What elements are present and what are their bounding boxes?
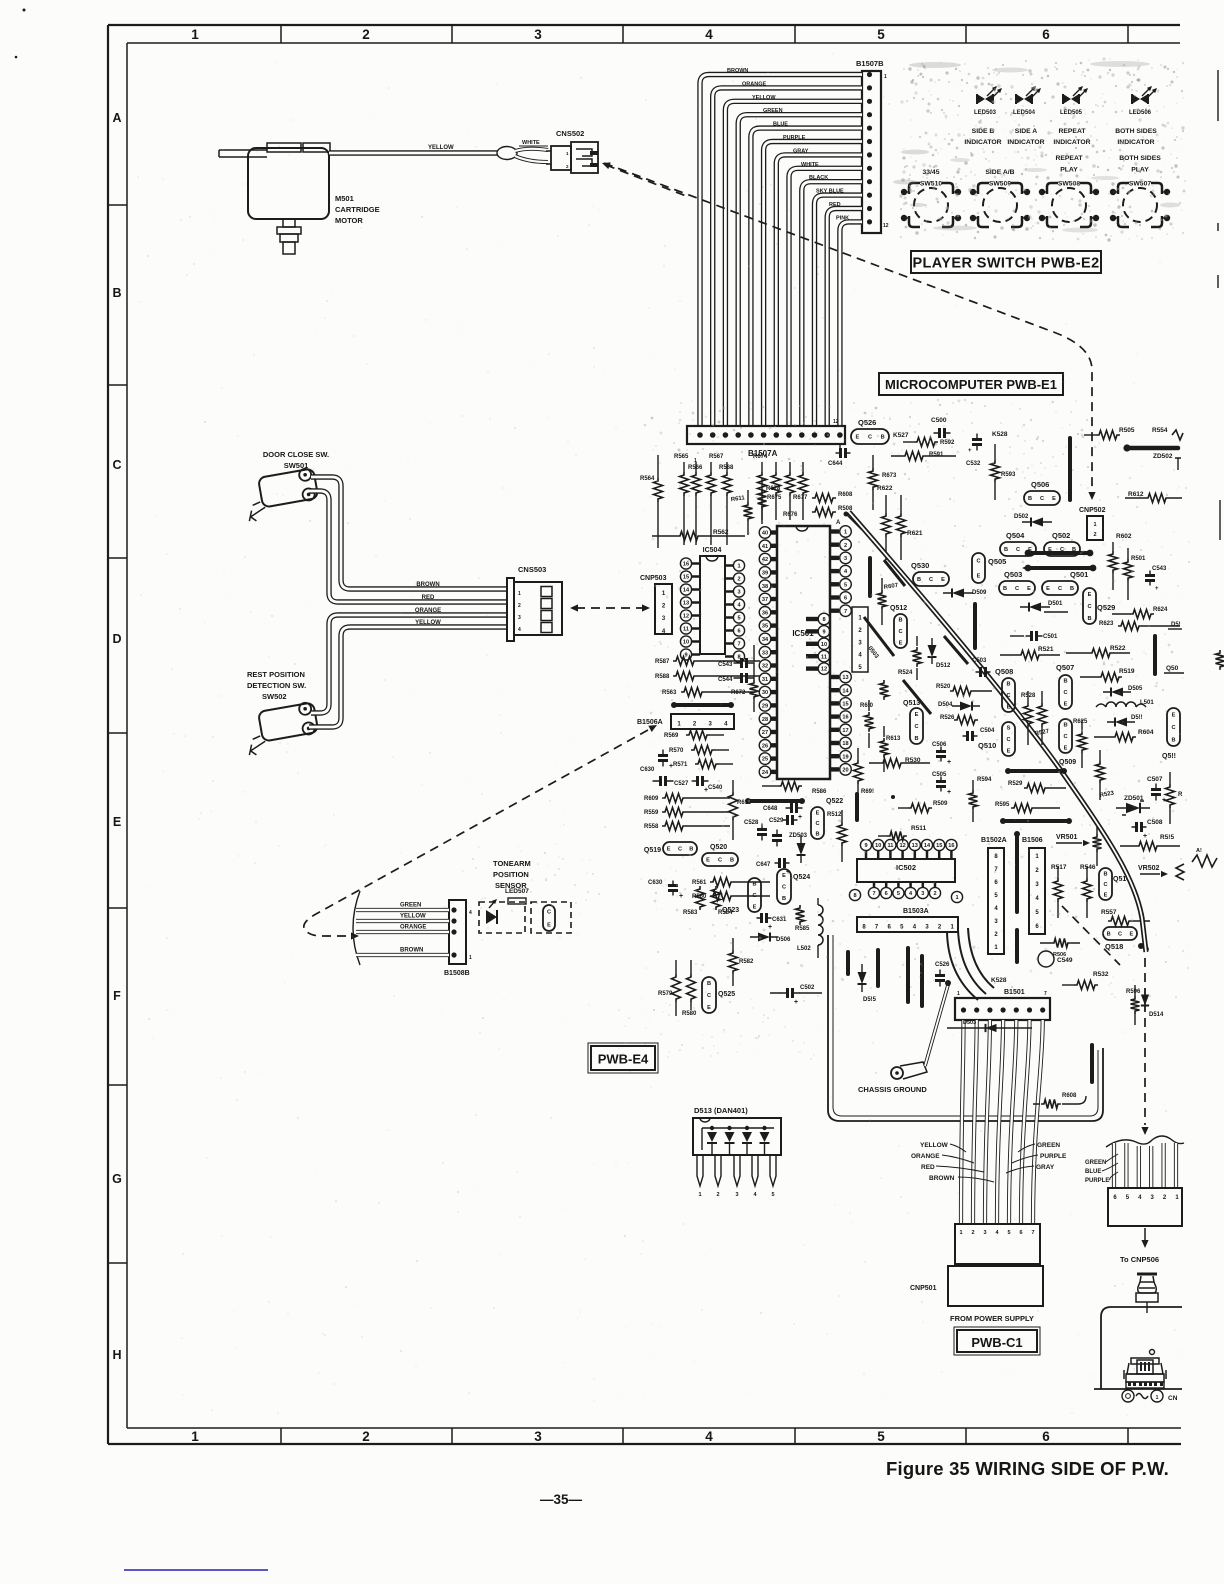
resistor R691	[854, 760, 863, 784]
scan noise sensor area	[519, 890, 520, 891]
svg-text:C: C	[782, 885, 786, 891]
wire BROWN B1507B pin 1 to B1507A	[700, 75, 862, 427]
jumper bar f1	[846, 952, 850, 974]
svg-text:R565: R565	[674, 454, 689, 460]
svg-text:CNS503: CNS503	[518, 565, 546, 574]
svg-text:B1506A: B1506A	[637, 719, 663, 726]
svg-text:POSITION: POSITION	[493, 870, 529, 879]
connector CNS503	[507, 578, 514, 641]
svg-text:38: 38	[762, 584, 768, 590]
svg-text:C630: C630	[640, 767, 655, 773]
svg-text:4: 4	[518, 627, 521, 633]
svg-text:YELLOW: YELLOW	[415, 620, 441, 626]
svg-text:C: C	[752, 893, 756, 899]
wire 3 to CNP506 connector	[1137, 1146, 1141, 1188]
svg-text:C: C	[914, 724, 918, 730]
svg-text:R529: R529	[1008, 781, 1023, 787]
svg-text:10: 10	[875, 843, 881, 849]
diode D514	[1141, 995, 1149, 1006]
resistor R675	[775, 462, 777, 520]
svg-text:Q512: Q512	[890, 605, 907, 612]
svg-text:CNP501: CNP501	[910, 1285, 937, 1292]
box PWB-E4	[591, 1046, 655, 1070]
transistor Q525	[702, 977, 716, 1013]
diode D509	[952, 589, 964, 598]
svg-text:A!: A!	[1196, 848, 1202, 854]
svg-text:17: 17	[842, 728, 848, 734]
svg-text:PWB-C1: PWB-C1	[971, 1335, 1022, 1350]
svg-text:C: C	[678, 847, 682, 853]
svg-text:+: +	[768, 924, 772, 931]
resistor R515	[1136, 842, 1160, 851]
svg-text:Q506: Q506	[1031, 480, 1049, 489]
capacitor C508	[1132, 826, 1147, 828]
svg-text:F: F	[113, 989, 121, 1003]
wire 1 to CNP506 connector	[1112, 1143, 1116, 1188]
capacitor C500	[934, 432, 951, 434]
switch SW501 door close	[242, 467, 320, 522]
dashed diagonal near B1506	[1062, 906, 1120, 965]
wire SW502 yellow	[309, 627, 508, 727]
svg-text:C529: C529	[769, 818, 784, 824]
svg-text:PLAY: PLAY	[1060, 167, 1078, 174]
diode D502	[1031, 518, 1043, 527]
svg-text:10: 10	[821, 642, 827, 648]
svg-text:B: B	[707, 981, 711, 987]
wire B1501 pin 7 to CNP501	[1033, 1020, 1043, 1224]
connector CNP501	[955, 1224, 1040, 1264]
dashed leader to CNS502	[606, 165, 686, 196]
svg-text:GREEN: GREEN	[763, 108, 783, 114]
svg-text:B1506: B1506	[1022, 837, 1043, 844]
curved bus wires	[958, 930, 986, 994]
diode D515	[858, 972, 867, 984]
short diagonal 2	[864, 617, 894, 656]
transistor Q513	[910, 708, 923, 744]
svg-text:BLACK: BLACK	[809, 175, 828, 181]
wire SW502 orange	[311, 615, 508, 713]
svg-text:RED: RED	[422, 595, 435, 601]
resistor R611	[744, 502, 753, 522]
resistor R530	[880, 759, 904, 768]
svg-text:27: 27	[762, 730, 768, 736]
resistor R677	[789, 462, 791, 520]
wire B1501 pin 5 to CNP501	[1009, 1020, 1016, 1224]
svg-text:1: 1	[191, 27, 199, 42]
svg-text:R559: R559	[644, 810, 659, 816]
resistor R594	[969, 790, 978, 810]
wire B1501 pin 2 to CNP501	[973, 1020, 977, 1224]
capacitor C642b	[783, 819, 798, 821]
jumper bar g2	[1003, 819, 1069, 823]
svg-text:B: B	[112, 286, 121, 300]
dashed arrow to B1506A	[304, 730, 648, 936]
svg-text:IC502: IC502	[896, 863, 916, 872]
switch SW502 rest position	[242, 701, 320, 756]
svg-text:+: +	[968, 448, 972, 454]
svg-text:YELLOW: YELLOW	[920, 1142, 949, 1149]
jumper bar f5	[1090, 1045, 1094, 1082]
inductor L501	[1106, 702, 1136, 707]
resistor R569	[686, 731, 710, 740]
transistor Q506	[1024, 491, 1060, 505]
svg-text:CNP503: CNP503	[640, 575, 667, 582]
svg-text:C: C	[898, 629, 902, 635]
svg-text:C631: C631	[772, 917, 787, 923]
svg-text:B: B	[1103, 871, 1107, 877]
svg-text:BROWN: BROWN	[929, 1175, 955, 1182]
capacitor C504	[963, 735, 978, 737]
svg-text:B: B	[782, 896, 786, 902]
svg-text:C644: C644	[828, 461, 843, 467]
svg-text:B: B	[752, 882, 756, 888]
svg-text:S: S	[1007, 726, 1011, 732]
connector CNS502	[551, 146, 571, 170]
svg-text:R563: R563	[662, 690, 677, 696]
resistor R621	[897, 513, 906, 537]
svg-text:FROM POWER SUPPLY: FROM POWER SUPPLY	[950, 1314, 1034, 1323]
IC502 bottom pins	[873, 882, 876, 888]
resistor R517	[1054, 878, 1063, 902]
transistor Q530	[913, 572, 949, 586]
svg-text:37: 37	[762, 597, 768, 603]
svg-text:B: B	[1107, 932, 1111, 938]
svg-text:5: 5	[737, 616, 740, 622]
capacitor C529	[776, 830, 778, 847]
svg-text:13: 13	[842, 675, 848, 681]
svg-text:6: 6	[1042, 27, 1050, 42]
capacitor C505	[940, 777, 942, 792]
svg-text:+: +	[1143, 833, 1147, 840]
jumper bar f3	[906, 948, 910, 1002]
transistor Q518	[1103, 927, 1137, 940]
resistor R610	[729, 792, 738, 820]
svg-text:B: B	[917, 577, 921, 583]
wire GREEN to B1508B	[356, 908, 449, 912]
svg-text:BROWN: BROWN	[400, 948, 423, 954]
svg-text:WHITE: WHITE	[801, 162, 819, 168]
svg-text:7: 7	[1044, 991, 1047, 997]
svg-text:YELLOW: YELLOW	[752, 95, 776, 101]
svg-text:12: 12	[883, 223, 889, 229]
svg-text:1: 1	[518, 591, 521, 597]
svg-text:11: 11	[887, 843, 893, 849]
resistor R595	[1011, 804, 1035, 813]
cut fragment right 860	[1192, 855, 1217, 867]
switch SW509	[983, 188, 1017, 222]
svg-text:2: 2	[716, 1192, 719, 1198]
svg-text:R5!5: R5!5	[1160, 834, 1174, 841]
svg-text:C: C	[547, 910, 551, 916]
svg-text:R602: R602	[1116, 533, 1132, 540]
jumper bar v2	[868, 558, 872, 596]
transistor Q507	[1059, 675, 1072, 709]
wire motor to CNS502 (yellow)	[329, 150, 497, 155]
switch SW510	[914, 188, 948, 222]
svg-text:DOOR CLOSE SW.: DOOR CLOSE SW.	[263, 450, 329, 459]
capacitor C528	[761, 824, 763, 841]
svg-text:D513 (DAN401): D513 (DAN401)	[694, 1106, 748, 1115]
svg-text:+: +	[947, 759, 951, 766]
svg-text:15: 15	[842, 702, 848, 708]
connector drawing bottom right	[1150, 1350, 1155, 1355]
svg-text:R511: R511	[911, 825, 927, 832]
svg-text:PURPLE: PURPLE	[783, 135, 806, 141]
svg-text:R594: R594	[977, 777, 992, 783]
svg-text:R501: R501	[1131, 556, 1146, 562]
svg-text:ORANGE: ORANGE	[415, 608, 441, 614]
svg-text:R677: R677	[793, 495, 808, 501]
wire 4 to CNP506 connector	[1149, 1146, 1153, 1188]
svg-text:D512: D512	[936, 663, 951, 669]
LED LED504	[1016, 94, 1024, 104]
resistor R622	[882, 513, 891, 537]
svg-text:14: 14	[683, 588, 690, 594]
svg-text:R612: R612	[1128, 491, 1144, 498]
sensor phototransistor box	[531, 902, 571, 933]
svg-text:4: 4	[705, 1429, 713, 1444]
svg-text:Q530: Q530	[911, 561, 929, 570]
connector B1506	[1029, 848, 1045, 934]
svg-text:E: E	[1088, 592, 1092, 598]
svg-text:K528: K528	[991, 977, 1007, 984]
resistor R579	[672, 974, 681, 1002]
B1507B pin dots	[867, 72, 872, 77]
blue underline bottom left	[124, 1569, 268, 1571]
capacitor C507	[1155, 784, 1157, 801]
svg-text:Q520: Q520	[710, 844, 727, 851]
svg-text:R579: R579	[658, 991, 673, 997]
resistor R672	[750, 680, 759, 700]
svg-text:1: 1	[737, 564, 740, 570]
svg-text:SKY BLUE: SKY BLUE	[816, 189, 844, 195]
cut fragment mid right	[1216, 650, 1224, 670]
IC IC501 body	[777, 526, 830, 779]
svg-text:IC504: IC504	[703, 547, 722, 554]
svg-text:YELLOW: YELLOW	[400, 914, 426, 920]
svg-text:C543: C543	[1152, 566, 1167, 572]
svg-text:B1502A: B1502A	[981, 837, 1007, 844]
IC501 right pins 1-7	[830, 529, 839, 533]
board outline PWB-E1 bottom	[828, 935, 1103, 1121]
svg-text:G: G	[112, 1172, 122, 1186]
svg-text:Q529: Q529	[1097, 603, 1115, 612]
transistor Q503	[999, 581, 1035, 595]
jumper bar B1502A	[1015, 834, 1019, 912]
diode D511	[1115, 718, 1127, 727]
resistor R512	[838, 822, 847, 846]
svg-text:R673: R673	[882, 473, 897, 479]
resistor R596	[1131, 996, 1140, 1014]
svg-text:LED505: LED505	[1060, 110, 1083, 116]
scan noise B1507A area	[644, 424, 647, 427]
transistor Q514	[1099, 868, 1112, 900]
resistor R584v	[712, 886, 721, 910]
connector B1501	[955, 998, 1050, 1020]
svg-text:SIDE B: SIDE B	[972, 128, 995, 135]
svg-text:C: C	[1103, 882, 1107, 888]
resistor R525v	[913, 647, 922, 667]
connector B1503A	[857, 917, 958, 932]
svg-text:D506: D506	[776, 937, 791, 943]
capacitor C501	[1026, 635, 1043, 637]
svg-text:A: A	[112, 111, 121, 125]
svg-text:VR502: VR502	[1138, 865, 1160, 872]
svg-text:E: E	[1064, 745, 1068, 751]
svg-text:R586: R586	[812, 789, 827, 795]
svg-text:16: 16	[948, 843, 954, 849]
svg-text:RED: RED	[829, 202, 841, 208]
capacitor C502	[781, 992, 800, 994]
svg-text:7: 7	[737, 642, 740, 648]
svg-text:B: B	[1028, 496, 1032, 502]
svg-text:6: 6	[737, 629, 740, 635]
svg-text:R520: R520	[936, 684, 951, 690]
svg-text:R69!: R69!	[861, 789, 874, 795]
svg-text:Q507: Q507	[1056, 663, 1074, 672]
resistor R591	[902, 452, 926, 461]
resistor R563	[681, 688, 705, 697]
svg-text:+: +	[1155, 586, 1159, 592]
svg-text:12: 12	[821, 667, 827, 673]
svg-text:R624: R624	[1153, 607, 1168, 613]
wire YELLOW to B1508B	[356, 919, 449, 923]
jumper bar above B1506A	[674, 703, 731, 707]
svg-text:R568: R568	[719, 465, 734, 471]
svg-text:40: 40	[762, 531, 768, 537]
svg-text:7: 7	[872, 891, 875, 897]
diode D512	[928, 645, 937, 657]
resistor R527	[1038, 703, 1047, 727]
svg-text:+: +	[669, 763, 673, 770]
cut fragment right edge	[1217, 70, 1219, 288]
svg-text:E: E	[1027, 586, 1031, 592]
svg-text:R505: R505	[1119, 427, 1135, 434]
svg-text:TONEARM: TONEARM	[493, 859, 531, 868]
resistor R524	[880, 680, 889, 700]
svg-text:B: B	[881, 435, 885, 441]
svg-text:E: E	[547, 923, 551, 929]
wire BROWN to B1508B	[356, 953, 449, 957]
svg-text:2: 2	[362, 27, 370, 42]
zener ZD503	[797, 843, 806, 855]
LED LED505	[1063, 94, 1071, 104]
capacitor C532	[976, 434, 978, 451]
svg-text:Q5!!: Q5!!	[1162, 753, 1176, 760]
svg-text:E: E	[899, 640, 903, 646]
svg-text:C502: C502	[800, 985, 815, 991]
svg-text:Q518: Q518	[1105, 942, 1123, 951]
svg-text:R672: R672	[731, 690, 746, 696]
svg-text:+: +	[798, 814, 802, 821]
svg-text:R571: R571	[673, 762, 688, 768]
svg-text:R561: R561	[692, 880, 707, 886]
svg-text:ORANGE: ORANGE	[911, 1153, 940, 1160]
svg-text:Q525: Q525	[718, 991, 735, 998]
svg-text:30: 30	[762, 690, 768, 696]
jumper bar above Q522	[748, 799, 802, 803]
svg-text:C526: C526	[935, 962, 950, 968]
svg-text:R569: R569	[664, 733, 679, 739]
inductor L502	[818, 905, 823, 945]
resistor R562	[677, 532, 701, 541]
svg-text:R621: R621	[907, 530, 923, 537]
svg-text:R580: R580	[682, 1011, 697, 1017]
wire GREEN B1507B pin 4 to B1507A	[738, 115, 862, 426]
svg-text:BOTH SIDES: BOTH SIDES	[1119, 155, 1161, 162]
svg-text:C: C	[815, 821, 819, 827]
resistor R528a	[1024, 703, 1033, 727]
svg-text:9: 9	[684, 653, 687, 659]
svg-text:16: 16	[683, 562, 689, 568]
svg-text:R567: R567	[709, 454, 724, 460]
svg-text:3: 3	[983, 1230, 986, 1236]
svg-text:1: 1	[1156, 1395, 1159, 1401]
svg-text:SW507: SW507	[1129, 181, 1152, 188]
svg-text:5: 5	[771, 1192, 774, 1198]
resistor R607	[878, 590, 887, 610]
svg-text:A: A	[836, 520, 841, 526]
svg-text:BLUE: BLUE	[773, 122, 788, 128]
switch SW507	[1123, 188, 1157, 222]
svg-text:R587: R587	[655, 659, 670, 665]
svg-text:B: B	[1003, 586, 1007, 592]
transistor Q520	[702, 853, 738, 866]
diode D503	[947, 1027, 1032, 1029]
resistor R580	[687, 974, 696, 1002]
IC501 right pins 8-12	[806, 617, 818, 621]
resistor R587	[673, 657, 697, 666]
wire pair to connector	[515, 149, 548, 151]
svg-text:+: +	[947, 789, 951, 796]
svg-text:1: 1	[1093, 522, 1096, 528]
svg-text:E: E	[667, 847, 671, 853]
torn edge 6-wire bundle	[1106, 1136, 1184, 1147]
wire PURPLE B1507B pin 6 to B1507A	[764, 142, 862, 427]
resistor R602	[1109, 551, 1118, 573]
svg-text:C: C	[976, 559, 980, 565]
svg-text:Q524: Q524	[793, 874, 810, 881]
svg-text:E: E	[706, 858, 710, 864]
transistor Q522	[811, 807, 824, 839]
svg-text:R613: R613	[886, 736, 901, 742]
svg-text:7: 7	[1031, 1230, 1034, 1236]
svg-text:11: 11	[821, 654, 827, 660]
connector strip 1-5 right of IC501	[852, 607, 868, 672]
svg-text:D501: D501	[1048, 601, 1063, 607]
cut fragment right 510	[1219, 500, 1221, 540]
transistor Q505	[972, 553, 985, 583]
svg-text:C: C	[868, 435, 872, 441]
svg-text:6: 6	[885, 891, 888, 897]
svg-text:29: 29	[762, 704, 768, 710]
svg-text:9: 9	[864, 843, 867, 849]
svg-text:Q522: Q522	[826, 798, 843, 805]
svg-text:6: 6	[1042, 1429, 1050, 1444]
svg-text:C544: C544	[718, 677, 733, 683]
IC IC502 body	[857, 859, 955, 882]
svg-text:3: 3	[921, 891, 924, 897]
svg-text:B: B	[730, 858, 734, 864]
svg-text:R554: R554	[1152, 427, 1168, 434]
box PWB-C1	[957, 1330, 1037, 1352]
transistor Q524	[777, 869, 791, 904]
svg-text:C507: C507	[1147, 776, 1163, 783]
diode D506	[758, 933, 770, 942]
resistor R673	[869, 468, 878, 490]
svg-text:R588: R588	[655, 674, 670, 680]
svg-text:2: 2	[844, 543, 847, 549]
